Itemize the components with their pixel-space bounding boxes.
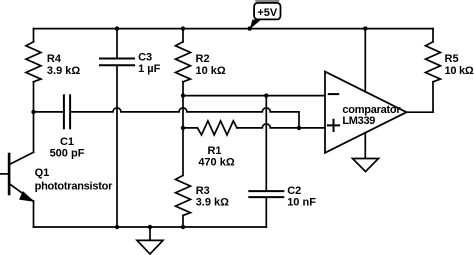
junction dot C3 bottom xyxy=(115,225,119,229)
transistor Q1 label xyxy=(35,167,113,193)
junction dot +5V flag tap xyxy=(248,26,252,30)
wire R5 branch bottom xyxy=(432,82,434,112)
wire plus input row with hop xyxy=(183,124,325,128)
svg-text:10 nF: 10 nF xyxy=(287,196,316,208)
wire bottom ground rail xyxy=(34,226,267,228)
capacitor C3 label xyxy=(138,51,161,74)
wire comparator ground pin xyxy=(364,133,366,159)
resistor R4 label xyxy=(47,53,80,77)
wire comparator V+ pin xyxy=(364,29,366,92)
wire R2 top stub xyxy=(182,29,184,42)
wire +5V top rail xyxy=(34,28,434,30)
resistor R3 label xyxy=(196,185,229,209)
svg-text:R3: R3 xyxy=(196,185,210,197)
svg-text:Q1: Q1 xyxy=(35,167,50,179)
wire R3 bottom stub xyxy=(182,215,184,227)
capacitor C2 xyxy=(249,191,283,197)
resistor R2 label xyxy=(196,53,226,77)
ground (bottom rail) xyxy=(137,227,163,254)
junction dot R1 left xyxy=(181,126,185,130)
junction dot R3 bottom xyxy=(181,225,185,229)
svg-text:C1: C1 xyxy=(60,136,74,148)
capacitor C1 xyxy=(64,95,70,128)
op-amp label comparator LM339 xyxy=(342,104,401,127)
resistor R1 xyxy=(198,121,238,135)
wire C3 bottom stub xyxy=(116,66,118,227)
capacitor C3 xyxy=(100,59,134,66)
svg-text:C3: C3 xyxy=(138,51,152,63)
wire C1 right lead to plus node with hops xyxy=(71,108,299,128)
junction dot ground stub xyxy=(148,225,152,229)
wire left branch upper xyxy=(33,29,35,42)
transistor Q1 xyxy=(0,152,34,201)
junction dot C2 top xyxy=(264,93,268,97)
junction dot comparator V+ tap xyxy=(363,26,367,30)
svg-text:470 kΩ: 470 kΩ xyxy=(198,157,235,169)
wire Q1 emitter to ground rail xyxy=(33,201,35,227)
svg-text:R2: R2 xyxy=(196,53,210,65)
wire C2 top lead xyxy=(265,96,267,191)
capacitor C1 label xyxy=(50,136,85,159)
svg-text:1 µF: 1 µF xyxy=(138,63,161,75)
junction dot divider at minus row xyxy=(181,93,185,97)
wire C2 bottom lead xyxy=(265,198,267,227)
svg-text:3.9 kΩ: 3.9 kΩ xyxy=(47,65,80,77)
resistor R5 xyxy=(426,42,441,82)
+5V power flag xyxy=(250,0,281,29)
resistor R5 label xyxy=(445,53,474,77)
wire divider branch vertical xyxy=(182,82,184,176)
op-amp U1 comparator LM339 xyxy=(325,72,407,153)
svg-text:10 kΩ: 10 kΩ xyxy=(445,65,474,77)
capacitor C2 label xyxy=(287,185,316,208)
junction dot R2 top xyxy=(181,26,185,30)
wire left branch middle xyxy=(33,82,35,153)
wire R5 branch top xyxy=(432,29,434,42)
svg-text:C2: C2 xyxy=(287,185,301,197)
svg-text:3.9 kΩ: 3.9 kΩ xyxy=(196,197,229,209)
svg-text:500 pF: 500 pF xyxy=(50,147,85,159)
svg-text:+5V: +5V xyxy=(257,7,278,19)
wire minus input row xyxy=(183,95,325,97)
ground (comparator) xyxy=(353,159,379,172)
junction dot C1 left tap xyxy=(31,110,35,114)
svg-text:phototransistor: phototransistor xyxy=(35,181,113,193)
svg-text:R4: R4 xyxy=(47,53,62,65)
wire C3 top stub xyxy=(116,29,118,58)
wire output to R5 xyxy=(407,111,434,113)
svg-text:10 kΩ: 10 kΩ xyxy=(196,65,226,77)
svg-text:LM339: LM339 xyxy=(342,115,375,127)
wire C1 left lead xyxy=(34,111,63,113)
resistor R1 label xyxy=(198,145,235,169)
svg-text:R1: R1 xyxy=(207,145,221,157)
resistor R3 xyxy=(176,175,191,215)
resistor R2 xyxy=(176,42,191,82)
resistor R4 xyxy=(26,42,41,82)
junction dot C1 drop at plus row xyxy=(297,126,301,130)
junction dot C3 top xyxy=(115,26,119,30)
svg-text:R5: R5 xyxy=(445,53,459,65)
